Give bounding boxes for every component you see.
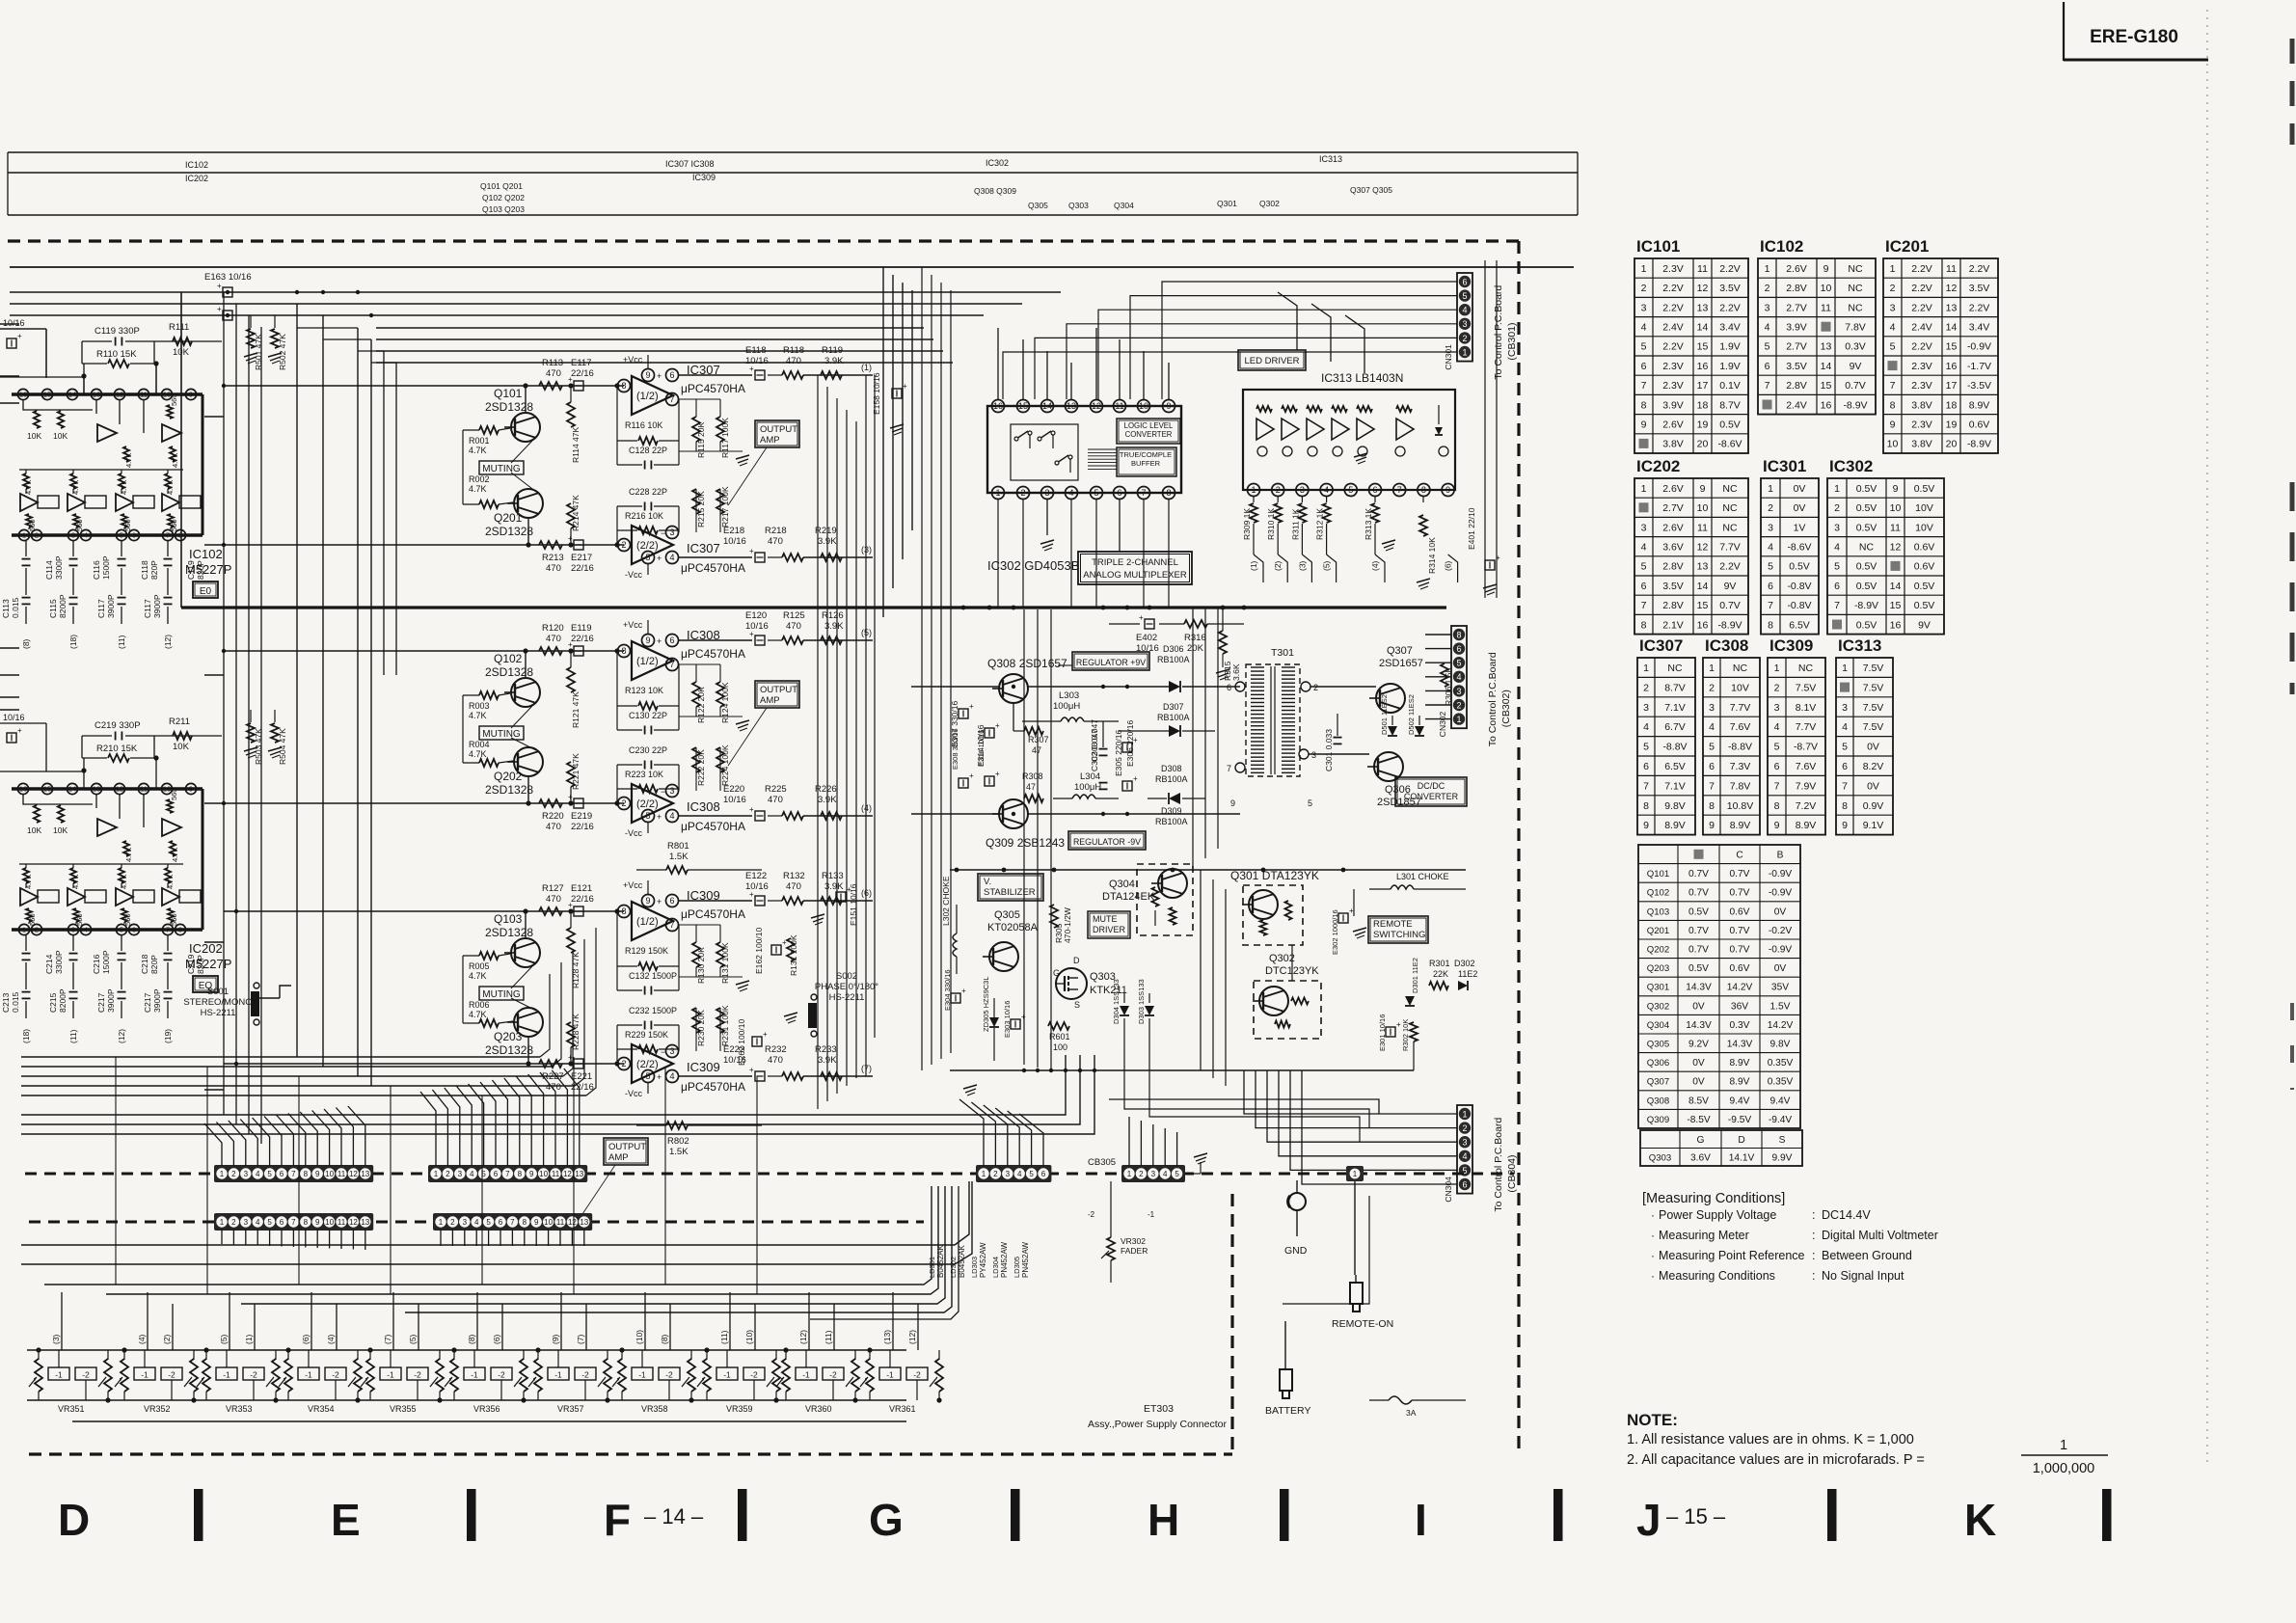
- svg-text:35V: 35V: [1771, 983, 1789, 993]
- node pin 3: [68, 529, 78, 540]
- wire: [205, 1350, 207, 1360]
- svg-text:-1: -1: [141, 1370, 149, 1380]
- wire bus group C: [21, 1244, 955, 1246]
- svg-text:9.4V: 9.4V: [1770, 1096, 1791, 1106]
- svg-text:3900P: 3900P: [106, 594, 116, 618]
- svg-text:DRIVER: DRIVER: [1093, 925, 1126, 934]
- resistor R132 470: [782, 897, 803, 905]
- svg-text:10K: 10K: [27, 431, 41, 441]
- ground: [1216, 669, 1229, 673]
- svg-text:13: 13: [93, 391, 100, 399]
- wire: [679, 374, 752, 376]
- svg-text:2.2V: 2.2V: [1662, 283, 1684, 294]
- wire: [1088, 458, 1117, 460]
- svg-text:+: +: [995, 721, 1000, 730]
- svg-text:Q302: Q302: [1269, 953, 1295, 964]
- svg-text:0.5V: 0.5V: [1914, 483, 1935, 495]
- svg-text:5: 5: [1768, 561, 1773, 573]
- svg-text:2.8V: 2.8V: [1662, 600, 1684, 611]
- svg-text:13: 13: [1697, 302, 1709, 313]
- svg-text:Q305: Q305: [994, 909, 1020, 921]
- svg-text:4.7K: 4.7K: [166, 875, 175, 889]
- svg-text:1: 1: [2060, 1438, 2067, 1453]
- svg-text:R225: R225: [765, 784, 787, 795]
- svg-text:-1: -1: [55, 1370, 63, 1380]
- potentiometer VR355: [366, 1359, 374, 1392]
- svg-text:-Vcc: -Vcc: [625, 828, 643, 838]
- svg-text:5: 5: [267, 1218, 272, 1227]
- svg-text:R127: R127: [542, 883, 564, 894]
- svg-text:0.015: 0.015: [11, 597, 20, 618]
- op-amp LED buffer: [1307, 419, 1324, 440]
- svg-text:4: 4: [1641, 541, 1647, 553]
- svg-text:IC313: IC313: [1319, 154, 1342, 164]
- capacitor C216 1500P: [72, 935, 74, 951]
- svg-text:-0.9V: -0.9V: [1769, 869, 1793, 879]
- svg-text:(1): (1): [1249, 560, 1258, 571]
- svg-text:(3): (3): [1297, 560, 1307, 571]
- wire: [72, 1001, 74, 1018]
- diode D502 11ES2: [1418, 716, 1420, 725]
- svg-text:4.7K: 4.7K: [469, 749, 487, 759]
- svg-text:2: 2: [1462, 1123, 1467, 1133]
- wire: [72, 864, 74, 868]
- svg-text:OUTPUT: OUTPUT: [608, 1142, 646, 1152]
- resistor R003 4.7K: [479, 691, 499, 699]
- svg-text:CN304: CN304: [1444, 1177, 1453, 1203]
- resistor R226 3.9K: [803, 815, 873, 817]
- svg-text:(1): (1): [861, 363, 872, 372]
- op-amp internal: [116, 888, 133, 906]
- node pin 15: [1017, 400, 1030, 413]
- svg-text:E217: E217: [571, 553, 592, 563]
- svg-text:Between Ground: Between Ground: [1822, 1249, 1912, 1262]
- svg-text:C119 330P: C119 330P: [95, 326, 140, 337]
- svg-text:E401 22/10: E401 22/10: [1467, 507, 1476, 550]
- wire: [123, 1350, 125, 1360]
- wire: [1327, 555, 1337, 582]
- svg-text:4.7K: 4.7K: [469, 971, 487, 981]
- svg-text:560: 560: [170, 788, 178, 800]
- connector CN302: [1451, 626, 1467, 728]
- svg-text:5: 5: [1709, 742, 1715, 753]
- svg-text:0V: 0V: [1692, 1077, 1705, 1088]
- svg-text:(6): (6): [492, 1334, 501, 1344]
- svg-text:R801: R801: [667, 841, 689, 852]
- wire: [679, 639, 752, 641]
- svg-text:3.4V: 3.4V: [1969, 321, 1990, 333]
- node pin 1: [18, 924, 29, 934]
- resistor R214 47K: [567, 503, 575, 528]
- svg-text:100μH: 100μH: [1053, 701, 1080, 712]
- svg-text:Q102: Q102: [494, 652, 523, 665]
- svg-text:2.2V: 2.2V: [1969, 263, 1990, 275]
- svg-text:R003: R003: [469, 701, 490, 711]
- resistor R310 1K: [1277, 497, 1279, 502]
- svg-text:Q301: Q301: [1217, 199, 1237, 208]
- node pin 2: [1017, 487, 1030, 500]
- resistor R219 3.9K: [803, 556, 873, 558]
- svg-text:R124 100K: R124 100K: [720, 682, 730, 723]
- svg-text:560: 560: [28, 519, 37, 531]
- svg-text:BATTERY: BATTERY: [1265, 1405, 1310, 1417]
- node pin 9: [185, 389, 196, 399]
- svg-text:NC: NC: [1722, 502, 1738, 514]
- svg-text:5: 5: [267, 1170, 272, 1178]
- svg-text:AMP: AMP: [608, 1152, 629, 1163]
- svg-text:-0.9V: -0.9V: [1967, 341, 1991, 353]
- svg-text:LD305: LD305: [1013, 1257, 1021, 1278]
- svg-text:-8.9V: -8.9V: [1967, 439, 1991, 450]
- wire channel input 2: [224, 1063, 624, 1065]
- svg-text:2.2V: 2.2V: [1911, 341, 1932, 353]
- svg-text:22/16: 22/16: [571, 894, 594, 905]
- svg-text:0.5V: 0.5V: [1856, 522, 1877, 533]
- svg-text:7.5V: 7.5V: [1863, 663, 1884, 674]
- svg-text:V.: V.: [984, 877, 991, 887]
- svg-text:2: 2: [231, 1218, 236, 1227]
- resistor R113 470: [539, 382, 562, 390]
- svg-text:13: 13: [93, 785, 100, 794]
- op-amp internal: [97, 424, 117, 442]
- svg-text:8.9V: 8.9V: [1969, 399, 1990, 411]
- svg-text:12: 12: [1697, 541, 1709, 553]
- svg-text:470: 470: [786, 356, 801, 366]
- resistor internal: [1307, 406, 1322, 412]
- capacitor C215 8200P: [72, 962, 74, 989]
- op-amp internal: [68, 494, 85, 511]
- svg-text:IC201: IC201: [1885, 237, 1929, 256]
- svg-text:VR351: VR351: [58, 1404, 85, 1414]
- svg-text:8: 8: [1842, 800, 1848, 812]
- svg-text:-1: -1: [802, 1370, 810, 1380]
- svg-text:15: 15: [1821, 380, 1832, 392]
- svg-text:5: 5: [486, 1218, 491, 1227]
- op-amp internal: [162, 494, 179, 511]
- potentiometer VR302 FADER: [1107, 1237, 1115, 1260]
- wire: [679, 663, 720, 665]
- svg-text:R121 47K: R121 47K: [571, 691, 581, 728]
- svg-text:820P: 820P: [149, 560, 159, 580]
- svg-text:R229 150K: R229 150K: [625, 1030, 668, 1040]
- ground: [1382, 540, 1395, 544]
- svg-text:(1/2): (1/2): [636, 656, 659, 667]
- wire: [679, 900, 752, 902]
- svg-text:C217: C217: [143, 992, 152, 1013]
- svg-text:6: 6: [1768, 581, 1773, 592]
- svg-text:1: 1: [1765, 263, 1770, 275]
- svg-text:2: 2: [1313, 683, 1318, 692]
- node pin 6: [1235, 682, 1245, 691]
- svg-text:8.7V: 8.7V: [1664, 682, 1686, 693]
- wire: [785, 1350, 787, 1360]
- svg-text:Q308 2SD1657: Q308 2SD1657: [987, 657, 1067, 670]
- svg-text:8: 8: [1643, 800, 1649, 812]
- svg-text:μPC4570HA: μPC4570HA: [681, 382, 745, 395]
- wire: [25, 607, 27, 624]
- svg-text:D309: D309: [1161, 806, 1182, 816]
- svg-text:KT02058A: KT02058A: [987, 922, 1039, 933]
- svg-text:12: 12: [349, 1218, 358, 1227]
- svg-text:Measuring Meter: Measuring Meter: [1659, 1229, 1749, 1242]
- svg-text:5: 5: [1456, 659, 1461, 668]
- resistor R313 1K: [1374, 497, 1376, 502]
- svg-text:14.3V: 14.3V: [1686, 983, 1712, 993]
- svg-text:3: 3: [1890, 302, 1896, 313]
- svg-text:1: 1: [434, 1170, 439, 1178]
- svg-text:D502 11ES2: D502 11ES2: [1407, 694, 1416, 735]
- wire: [167, 470, 169, 473]
- svg-text:J: J: [1636, 1495, 1661, 1545]
- svg-text:(4): (4): [137, 1334, 147, 1344]
- svg-text:1: 1: [1641, 483, 1647, 495]
- svg-text:-0.9V: -0.9V: [1769, 945, 1793, 956]
- svg-text:1: 1: [1641, 263, 1647, 275]
- node pin 1: [992, 487, 1005, 500]
- svg-text:Q303: Q303: [1068, 201, 1089, 210]
- svg-text:+: +: [749, 1066, 754, 1074]
- svg-text:14: 14: [1697, 321, 1709, 333]
- ground: [736, 981, 749, 985]
- resistor internal: [1332, 406, 1347, 412]
- svg-text:−: −: [661, 661, 665, 670]
- resistor R302 10K: [1410, 1022, 1418, 1041]
- ground: [244, 747, 257, 751]
- svg-text:R122 20K: R122 20K: [696, 687, 706, 723]
- resistor R111 10K: [173, 338, 192, 345]
- node pin 4: [80, 529, 91, 540]
- wire: [0, 328, 46, 330]
- svg-text:4: 4: [1068, 488, 1073, 498]
- resistor 4.7K: [165, 473, 171, 489]
- svg-text:10: 10: [1890, 502, 1902, 514]
- svg-text:9: 9: [1643, 820, 1649, 831]
- box REMOTE SWITCHING: [1368, 916, 1428, 943]
- svg-text:10/16: 10/16: [723, 536, 746, 547]
- wire pot feed: [147, 1292, 149, 1350]
- svg-text:1: 1: [1127, 1170, 1132, 1178]
- svg-text:2: 2: [1139, 1170, 1144, 1178]
- op-amp IC307 (1/2): [632, 376, 673, 415]
- svg-text:I: I: [1415, 1495, 1427, 1545]
- node pin 16: [17, 389, 28, 399]
- dashed bus row 2: [29, 1221, 924, 1224]
- node pin 13: [91, 783, 101, 794]
- wire: [179, 496, 201, 508]
- svg-text:4.7K: 4.7K: [124, 453, 133, 468]
- svg-text:4: 4: [1017, 1170, 1022, 1178]
- svg-text:15: 15: [43, 391, 51, 399]
- svg-text:7: 7: [1709, 780, 1715, 792]
- svg-text:9V: 9V: [1724, 581, 1737, 592]
- svg-text:Q103: Q103: [494, 912, 523, 926]
- svg-text:LD303: LD303: [970, 1257, 979, 1278]
- svg-text:Power Supply Voltage: Power Supply Voltage: [1659, 1208, 1776, 1222]
- svg-text:3: 3: [1456, 687, 1461, 696]
- svg-text:7.3V: 7.3V: [1730, 761, 1751, 772]
- capacitor E117 22/16: [574, 381, 583, 391]
- svg-text:13: 13: [1946, 302, 1958, 313]
- resistor R220 470: [539, 799, 562, 807]
- svg-text:13: 13: [361, 1170, 369, 1178]
- svg-text:R213: R213: [542, 553, 564, 563]
- svg-text:4.7K: 4.7K: [469, 1010, 487, 1019]
- svg-text:2.2V: 2.2V: [1911, 283, 1932, 294]
- svg-text:2: 2: [1834, 502, 1840, 514]
- svg-text:2: 2: [1643, 682, 1649, 693]
- svg-text:REMOTE: REMOTE: [1373, 919, 1413, 930]
- svg-text:7: 7: [1774, 780, 1780, 792]
- node pin 12: [114, 389, 124, 399]
- node pin 9: [1163, 400, 1175, 413]
- wire: [133, 496, 154, 508]
- svg-text:3: 3: [71, 926, 75, 934]
- svg-text:KTK211: KTK211: [1090, 985, 1127, 996]
- svg-text:470: 470: [786, 881, 801, 892]
- resistor R211 10K: [173, 732, 192, 740]
- svg-text:VR359: VR359: [726, 1404, 753, 1414]
- svg-text:CN302: CN302: [1438, 711, 1447, 737]
- resistor R115 20K: [692, 417, 700, 442]
- svg-text:-1: -1: [723, 1370, 731, 1380]
- svg-text:-1: -1: [1148, 1210, 1155, 1219]
- svg-text:R126: R126: [822, 610, 844, 621]
- svg-text:E303 10/16: E303 10/16: [1003, 1001, 1012, 1038]
- svg-text:470: 470: [546, 1082, 561, 1093]
- svg-text:5: 5: [645, 811, 650, 821]
- svg-text:9.4V: 9.4V: [1730, 1096, 1750, 1106]
- potentiometer VR351: [35, 1359, 42, 1392]
- capacitor E306 220/16: [1122, 781, 1132, 791]
- svg-text:-8.9V: -8.9V: [1843, 399, 1867, 411]
- capacitor C117 3900P: [167, 568, 169, 595]
- svg-text:4: 4: [256, 1218, 260, 1227]
- wire: [463, 694, 479, 696]
- svg-text:4: 4: [1842, 721, 1848, 733]
- svg-text:DC14.4V: DC14.4V: [1822, 1208, 1871, 1222]
- wire: [537, 1350, 539, 1360]
- wire: [167, 1001, 169, 1018]
- svg-text:10V: 10V: [1731, 682, 1749, 693]
- svg-text:C303 0.047: C303 0.047: [1090, 719, 1099, 762]
- svg-text:9V: 9V: [1918, 619, 1931, 631]
- svg-text:7.8V: 7.8V: [1730, 780, 1751, 792]
- resistor R228 47K: [567, 1022, 575, 1047]
- svg-text:2: 2: [1765, 283, 1770, 294]
- svg-text:11: 11: [556, 1218, 565, 1227]
- box DC/DC CONVERTER: [1395, 777, 1467, 806]
- svg-text:0.7V: 0.7V: [1730, 945, 1750, 956]
- svg-text:C132 1500P: C132 1500P: [629, 971, 677, 981]
- svg-text:2.6V: 2.6V: [1662, 483, 1684, 495]
- node pin 10: [1138, 400, 1150, 413]
- svg-text:6: 6: [1462, 1179, 1467, 1189]
- svg-text:560: 560: [123, 913, 132, 926]
- svg-text:9: 9: [1230, 798, 1235, 808]
- svg-text:1. All resistance values are: 1. All resistance values are in ohms. K …: [1627, 1432, 1914, 1447]
- wire: [647, 880, 649, 894]
- node pin 16: [17, 783, 28, 794]
- svg-text:2: 2: [35, 926, 39, 934]
- svg-text:14: 14: [1946, 321, 1958, 333]
- capacitor C114 3300P: [25, 541, 27, 556]
- svg-text:13: 13: [1821, 341, 1832, 353]
- wire: [453, 1350, 455, 1360]
- svg-text:470: 470: [546, 563, 561, 574]
- svg-text:R802: R802: [667, 1136, 689, 1147]
- page edge dotted line: [2206, 10, 2208, 1466]
- svg-text:(5): (5): [1322, 560, 1332, 571]
- svg-text:2.2V: 2.2V: [1719, 302, 1741, 313]
- svg-text:14: 14: [1697, 581, 1709, 592]
- svg-text:9: 9: [645, 370, 650, 380]
- svg-text:3: 3: [1842, 702, 1848, 714]
- svg-text:R215 20K: R215 20K: [696, 491, 706, 527]
- svg-text:R004: R004: [469, 740, 490, 749]
- svg-text:560: 560: [75, 519, 84, 531]
- potentiometer VR361: [866, 1359, 874, 1392]
- op-amp IC309 (1/2): [632, 902, 673, 940]
- svg-text:R316: R316: [1184, 633, 1206, 643]
- svg-text:7.7V: 7.7V: [1719, 541, 1741, 553]
- svg-text:1: 1: [1643, 663, 1649, 674]
- svg-text:0.7V: 0.7V: [1688, 869, 1709, 879]
- svg-text:5: 5: [1308, 798, 1312, 808]
- capacitor E402 10/16: [1145, 619, 1154, 629]
- wire: [287, 1350, 289, 1360]
- svg-text:R310 1K: R310 1K: [1266, 508, 1276, 540]
- wire: [23, 400, 93, 410]
- svg-text:3.5V: 3.5V: [1969, 283, 1990, 294]
- wire: [911, 813, 999, 815]
- wire nested staircase: [296, 304, 298, 1057]
- svg-text:4: 4: [1324, 485, 1329, 495]
- svg-text:16: 16: [19, 785, 27, 794]
- svg-text:8.9V: 8.9V: [1664, 820, 1686, 831]
- svg-text:NC: NC: [1848, 302, 1863, 313]
- svg-text:4: 4: [84, 926, 88, 934]
- svg-text:4.7K: 4.7K: [24, 875, 33, 889]
- svg-text::: :: [1812, 1249, 1815, 1262]
- svg-text:R502 47K: R502 47K: [278, 334, 287, 370]
- capacitor C301 0.033: [1334, 737, 1342, 739]
- svg-text:2SD1328: 2SD1328: [485, 525, 533, 538]
- svg-text:L302 CHOKE: L302 CHOKE: [941, 876, 951, 926]
- resistor R213 470: [539, 541, 562, 549]
- wire: [81, 736, 83, 758]
- svg-text:TRIPLE 2-CHANNEL: TRIPLE 2-CHANNEL: [1092, 557, 1178, 568]
- resistor R221 47K: [567, 762, 575, 787]
- svg-text:7.6V: 7.6V: [1796, 761, 1817, 772]
- wire top bus cluster: [376, 327, 924, 329]
- svg-text:10/16: 10/16: [3, 318, 25, 328]
- svg-text:12: 12: [1890, 541, 1902, 553]
- op-amp internal: [162, 888, 179, 906]
- svg-text:9: 9: [1700, 483, 1706, 495]
- switch analog: [1038, 437, 1041, 441]
- svg-text:(6): (6): [1444, 560, 1453, 571]
- wire: [1254, 555, 1263, 582]
- svg-text:1: 1: [1251, 485, 1256, 495]
- svg-text:7.8V: 7.8V: [1845, 321, 1866, 333]
- svg-text:2.2V: 2.2V: [1719, 263, 1741, 275]
- svg-text:Q305: Q305: [1647, 1040, 1669, 1050]
- svg-text:+: +: [657, 1072, 662, 1082]
- svg-text:C228 22P: C228 22P: [629, 487, 667, 497]
- wire connector feeds CB304: [1244, 1070, 1457, 1114]
- svg-text:9.9V: 9.9V: [1772, 1152, 1793, 1163]
- svg-text:5: 5: [645, 1071, 650, 1081]
